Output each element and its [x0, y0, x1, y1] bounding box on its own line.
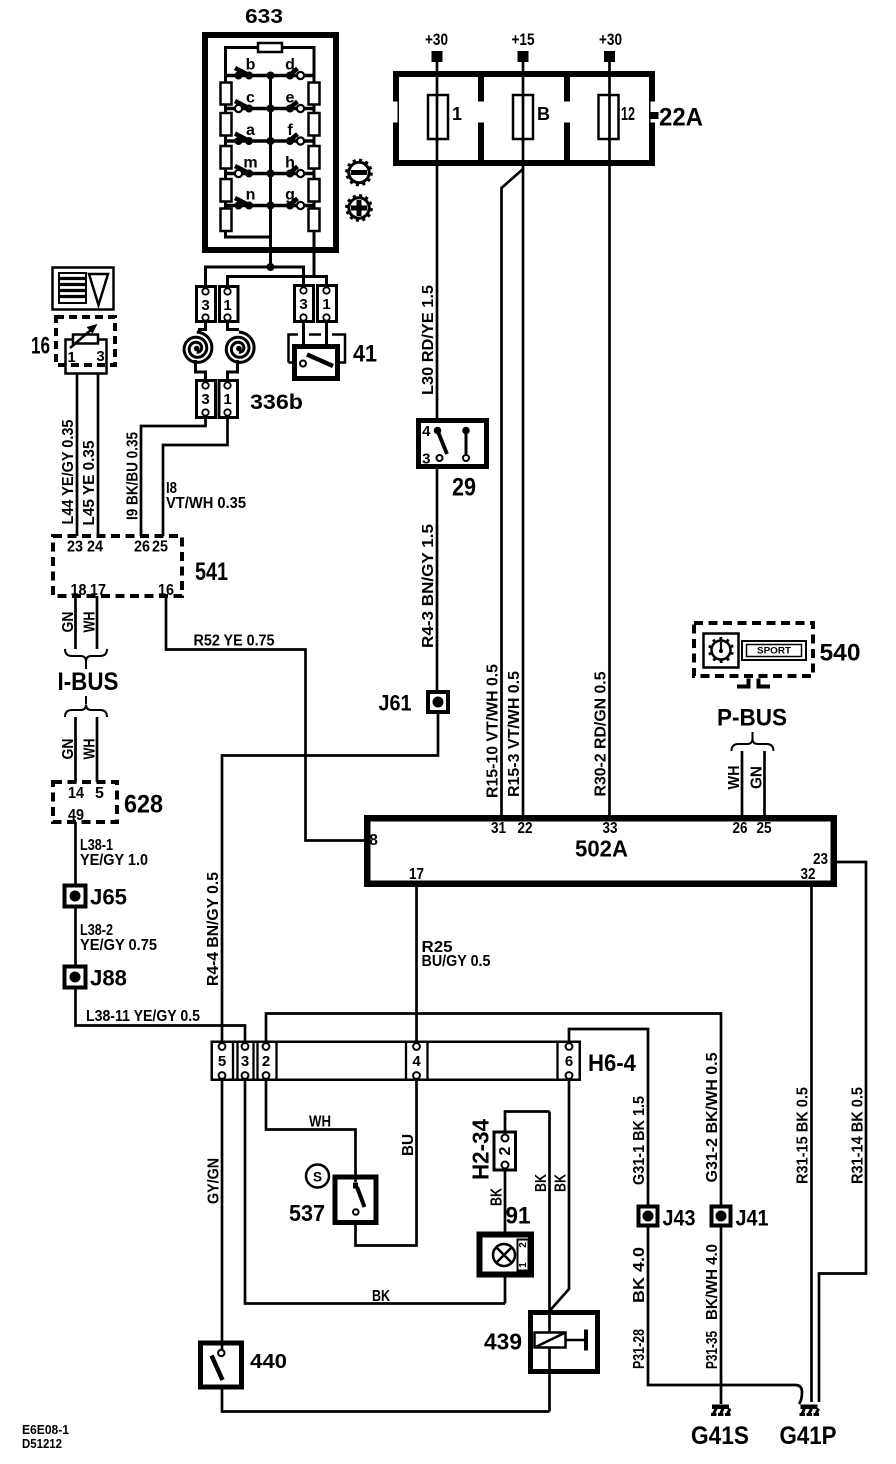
label I9 BK/BU 0.35: [125, 432, 142, 520]
svg-text:R52 YE 0.75: R52 YE 0.75: [194, 633, 275, 650]
pin 1 label 16: [67, 349, 75, 366]
svg-text:SPORT: SPORT: [757, 646, 792, 656]
label g: [285, 187, 295, 204]
label G41P: [780, 1422, 837, 1450]
switch 41 outer housing: [289, 335, 346, 363]
wire R4-4 BN/GY 0.5 (J61 to H6-4 pin 5): [222, 712, 438, 1041]
lamp 91 box: [480, 1235, 532, 1275]
wire left rail 633: [224, 46, 227, 239]
label b: [246, 57, 256, 74]
svg-text:D51212: D51212: [22, 1436, 62, 1451]
pin 18 label 541: [71, 582, 87, 599]
switch 440 box: [201, 1343, 242, 1387]
switch 540 knob icon: [704, 634, 739, 668]
switch 540 SPORT button: [742, 641, 806, 660]
wire R31-15 BK 0.5 (502A-32 to G41P): [810, 884, 813, 1402]
svg-text:VT/WH 0.35: VT/WH 0.35: [166, 495, 246, 512]
wire G31-2 BK/WH 0.5 (H6-4 pin 2 to J41): [266, 1014, 721, 1207]
switch 537 contact: [353, 1183, 365, 1215]
wire lamp 91 to BK rail: [504, 1274, 507, 1304]
switch 537 box: [335, 1177, 376, 1223]
svg-text:BK/WH 4.0: BK/WH 4.0: [704, 1244, 721, 1320]
switch 41 contact: [300, 355, 333, 367]
resistor right 5 633: [309, 209, 320, 232]
valve 439 box: [531, 1313, 598, 1372]
svg-text:22: 22: [518, 820, 533, 837]
icon dim (minus) control: [345, 159, 372, 186]
label GN lower: [60, 739, 77, 760]
wire L44 YE/GY 0.35 (16-1 to 541-23): [76, 374, 79, 536]
pin 25 label 502A: [757, 820, 772, 837]
label P31-35: [704, 1331, 721, 1369]
pin 2 label H2-34: [497, 1146, 514, 1155]
connector 3 lower (336b): [197, 381, 216, 418]
svg-text:633: 633: [245, 6, 283, 28]
wire WH (P-BUS to 502A-26): [741, 751, 744, 816]
control module 541 housing (dashed): [53, 536, 182, 596]
pin 8 label 502A: [369, 832, 378, 849]
label G31-1 BK 1.5: [631, 1096, 648, 1185]
P-BUS tick: [752, 732, 754, 741]
label L38-2: [80, 922, 113, 939]
connector H2-34: [494, 1132, 516, 1170]
pin 26 label 502A: [733, 820, 748, 837]
switch contact a 633: [235, 134, 254, 146]
wire pad to fusebox B: [522, 62, 525, 95]
switch unit 633 housing: [205, 35, 336, 250]
wire L38-11 YE/GY 0.5 (J88 to H6-4 pin 3): [76, 988, 246, 1042]
wire row b-d 633: [226, 74, 315, 78]
junction J65: [65, 886, 86, 907]
label h: [285, 155, 295, 172]
svg-text:E6E08-1: E6E08-1: [22, 1422, 69, 1437]
junction node row c 633: [267, 105, 275, 113]
resistor right 2 633: [309, 113, 320, 136]
wire into left coil: [198, 320, 206, 330]
connector 3 upper-right: [295, 286, 314, 322]
power pad +15: [518, 51, 529, 62]
label 91: [506, 1203, 531, 1230]
wire P31-35 BK/WH 4.0 (J41 to G41S): [720, 1226, 723, 1404]
svg-text:12: 12: [621, 104, 635, 124]
pin 23 label 502A: [813, 851, 828, 868]
svg-text:3: 3: [422, 451, 430, 468]
wire BK through valve 439: [548, 1112, 551, 1412]
svg-text:d: d: [285, 57, 295, 74]
svg-text:H2-34: H2-34: [468, 1119, 494, 1180]
wire connector to switch 41 right: [325, 320, 328, 346]
pin 1 label 336b: [223, 391, 231, 408]
wire BK (H6-4 pin 3 to lamp 91): [245, 1080, 505, 1304]
svg-text:32: 32: [801, 866, 816, 883]
label 502A: [575, 836, 628, 862]
svg-text:439: 439: [484, 1329, 522, 1355]
svg-text:31: 31: [491, 820, 506, 837]
label 22A: [659, 104, 703, 132]
svg-text:537: 537: [289, 1200, 325, 1226]
label WH lower: [82, 739, 99, 760]
svg-text:18: 18: [71, 582, 87, 599]
svg-text:23: 23: [67, 539, 83, 556]
svg-text:P31-28: P31-28: [631, 1329, 648, 1369]
pin 4 H6-4: [412, 1043, 421, 1079]
svg-text:5: 5: [218, 1053, 226, 1070]
svg-text:L30 RD/YE 1.5: L30 RD/YE 1.5: [420, 285, 437, 395]
pin 17 label 502A: [409, 866, 424, 883]
pin 22 label 502A: [518, 820, 533, 837]
svg-text:336b: 336b: [250, 391, 303, 414]
label 628: [124, 791, 163, 819]
wire H6-4 pin 6 to valve 439: [550, 1080, 570, 1311]
label R30-2 RD/GN 0.5: [593, 671, 610, 796]
switch contact m 633: [235, 166, 253, 178]
svg-text:49: 49: [68, 807, 84, 824]
svg-text:6: 6: [565, 1053, 573, 1070]
label L38-1: [80, 837, 113, 854]
svg-text:440: 440: [250, 1351, 287, 1373]
svg-text:4: 4: [422, 423, 431, 440]
label e: [286, 90, 295, 107]
I-BUS brace upper: [65, 649, 107, 662]
svg-text:1: 1: [67, 349, 75, 366]
label L44 YE/GY 0.35: [60, 419, 77, 524]
valve 439 element: [535, 1330, 587, 1351]
pin 3 label 336b: [201, 391, 209, 408]
switch contact h 633: [286, 167, 304, 178]
rheostat 16 housing (dashed): [56, 317, 115, 365]
svg-text:14: 14: [68, 785, 84, 802]
wire row n-g 633: [226, 204, 315, 208]
wire connector to switch 41 left: [302, 320, 305, 346]
label R31-14 BK 0.5: [850, 1087, 867, 1184]
wire 633 center to connectors: [269, 250, 272, 267]
wire P31-28 BK 4.0 (J43 to G41P): [648, 1226, 802, 1404]
svg-text:WH: WH: [726, 766, 743, 790]
wire GN (I-BUS to 628-14): [74, 717, 77, 782]
svg-text:B: B: [537, 104, 550, 124]
switch 540 foot left: [737, 679, 749, 687]
svg-text:3: 3: [201, 391, 209, 408]
svg-text:BK: BK: [533, 1174, 550, 1192]
svg-text:3: 3: [299, 296, 307, 313]
rheostat 16 inner box: [66, 340, 107, 374]
svg-text:YE/GY 1.0: YE/GY 1.0: [80, 852, 148, 869]
svg-text:1: 1: [452, 104, 462, 124]
pin 49 label 628: [68, 807, 84, 824]
svg-text:1: 1: [223, 391, 231, 408]
svg-text:f: f: [287, 122, 293, 139]
svg-text:J88: J88: [90, 966, 127, 991]
wire R31-14 BK 0.5 (502A-23 to G41P): [819, 862, 866, 1402]
switch contact b 633: [235, 68, 254, 80]
junction J41: [712, 1207, 731, 1226]
svg-text:J61: J61: [379, 691, 412, 716]
svg-text:G31-1 BK 1.5: G31-1 BK 1.5: [631, 1096, 648, 1185]
wire WH (541-17 to I-BUS): [96, 596, 99, 649]
label fuse 1: [452, 104, 462, 124]
label 41: [353, 341, 377, 368]
svg-text:P31-35: P31-35: [704, 1331, 721, 1369]
label R52 YE 0.75: [194, 633, 275, 650]
label fuse 12: [621, 104, 635, 124]
wire L30 RD/YE 1.5 (fuse 1 to relay 29): [436, 139, 439, 418]
svg-text:3: 3: [96, 348, 104, 365]
label fuse B: [537, 104, 550, 124]
junction node row a 633: [267, 137, 275, 145]
connector 1 upper-right: [318, 286, 337, 322]
pin 4 label relay 29: [422, 423, 431, 440]
coil spring left: [184, 332, 212, 362]
svg-text:a: a: [246, 122, 255, 139]
label R15-3 VT/WH 0.5: [506, 671, 523, 797]
label R31-15 BK 0.5: [795, 1087, 812, 1184]
svg-text:L38-11 YE/GY 0.5: L38-11 YE/GY 0.5: [86, 1008, 200, 1025]
label BU/GY 0.5: [422, 953, 491, 970]
wire right rail 633: [313, 46, 316, 250]
resistor right 1 633: [309, 83, 320, 105]
label WH P-BUS: [726, 766, 743, 790]
svg-text:BK: BK: [553, 1174, 570, 1192]
svg-text:J43: J43: [663, 1206, 696, 1231]
svg-text:24: 24: [87, 539, 103, 556]
svg-text:26: 26: [134, 539, 150, 556]
svg-text:R31-14 BK 0.5: R31-14 BK 0.5: [850, 1087, 867, 1184]
label 336b: [250, 391, 303, 414]
label 541: [195, 558, 228, 586]
wire R15-10 VT/WH 0.5 (branch to 502A pin 31): [502, 169, 524, 816]
relay 29 contact left: [434, 427, 447, 461]
pin 3 H6-4: [241, 1043, 249, 1079]
svg-text:2: 2: [518, 1242, 529, 1248]
svg-text:GY/GN: GY/GN: [206, 1158, 223, 1204]
label d: [285, 57, 295, 74]
switch contact e 633: [286, 102, 304, 113]
label R25: [422, 939, 453, 956]
pin 3 label upper-right connector: [299, 296, 307, 313]
pin 31 label 502A: [491, 820, 506, 837]
svg-text:26: 26: [733, 820, 748, 837]
svg-text:g: g: [285, 187, 295, 204]
resistor left 5 633: [221, 209, 232, 232]
svg-text:e: e: [286, 90, 295, 107]
svg-text:c: c: [246, 90, 255, 107]
fuse 1: [428, 95, 448, 139]
pin 26 label 541: [134, 539, 150, 556]
label 633: [245, 6, 283, 28]
svg-text:1: 1: [223, 297, 231, 314]
svg-text:R15-10 VT/WH 0.5: R15-10 VT/WH 0.5: [485, 664, 502, 798]
I-BUS brace lower: [65, 705, 107, 718]
svg-text:91: 91: [506, 1203, 531, 1230]
svg-text:J41: J41: [736, 1206, 769, 1231]
svg-text:b: b: [246, 57, 256, 74]
power pad +30 right: [604, 51, 615, 62]
wire GN (541-18 to I-BUS): [74, 596, 77, 649]
fuse B: [513, 95, 533, 139]
svg-text:41: 41: [353, 341, 377, 368]
wire fuse B internal: [522, 95, 525, 139]
connector 1 upper-left: [220, 287, 239, 322]
svg-text:29: 29: [452, 474, 476, 502]
svg-text:P-BUS: P-BUS: [717, 705, 787, 732]
svg-text:5: 5: [95, 785, 104, 802]
svg-text:h: h: [285, 155, 295, 172]
icon S circle 537: [306, 1165, 329, 1188]
wire top rail 633: [226, 46, 315, 49]
svg-text:I9 BK/BU 0.35: I9 BK/BU 0.35: [125, 432, 142, 520]
svg-text:502A: 502A: [575, 836, 628, 862]
svg-text:1: 1: [518, 1262, 529, 1268]
label R4-4 BN/GY 0.5: [205, 872, 222, 986]
wire fuse 12 internal: [608, 95, 611, 139]
wire connector bus lower: [228, 277, 327, 286]
label R15-10 VT/WH 0.5: [485, 664, 502, 798]
pin 1 label upper-left connector: [223, 297, 231, 314]
wire R15-3 VT/WH 0.5 (fuse B to 502A pin 22): [522, 139, 525, 816]
label 439: [484, 1329, 522, 1355]
svg-text:2: 2: [497, 1146, 514, 1155]
svg-text:541: 541: [195, 558, 228, 586]
switch contact c 633: [235, 101, 253, 113]
label BK 4.0: [631, 1247, 648, 1303]
label VT/WH 0.35: [166, 495, 246, 512]
fuse box 22A housing: [390, 74, 659, 163]
svg-text:+30: +30: [425, 30, 448, 49]
svg-text:1: 1: [322, 296, 330, 313]
pin 3 label relay 29: [422, 451, 430, 468]
svg-text:4: 4: [412, 1053, 421, 1070]
switch 440 contact: [212, 1350, 225, 1380]
wire row c-e 633: [226, 107, 315, 111]
label 16: [31, 333, 50, 360]
icon instrument lighting: [53, 268, 114, 310]
module 502A housing: [367, 818, 834, 884]
pin 32 label 502A: [801, 866, 816, 883]
label a: [246, 122, 255, 139]
svg-text:GN: GN: [60, 612, 77, 633]
pin 23 label 541: [67, 539, 83, 556]
switch contact g 633: [286, 199, 304, 210]
pin 2 H6-4: [262, 1043, 270, 1079]
connector 1 lower (336b): [219, 381, 238, 418]
label L30 RD/YE 1.5: [420, 285, 437, 395]
label 540: [820, 640, 861, 667]
wire GY/GN (H6-4 pin 5 to switch 440): [221, 1080, 224, 1349]
wire WH (I-BUS to 628-5): [96, 717, 99, 782]
connector 3 upper-left: [197, 287, 216, 322]
svg-text:25: 25: [152, 539, 168, 556]
power feed +30 label (fuse 12): [599, 30, 622, 49]
svg-text:J65: J65: [90, 885, 127, 910]
wire L38-1 YE/GY 1.0 (628-49 to J65): [74, 822, 77, 884]
svg-text:R4-3 BN/GY 1.5: R4-3 BN/GY 1.5: [420, 524, 437, 648]
module 628 housing (dashed): [53, 782, 117, 822]
wire 440 to 439 (bottom rail): [222, 1387, 550, 1412]
label P31-28: [631, 1329, 648, 1369]
label BK H2-34: [489, 1188, 506, 1206]
resistor right 4 633: [309, 179, 320, 202]
wire L38-2 YE/GY 0.75 (J65 to J88): [74, 907, 77, 966]
ground G41S: [711, 1405, 731, 1417]
wire bottom join 633: [224, 236, 271, 239]
junction node row m 633: [267, 170, 275, 178]
wire G31-1 BK 1.5 (H6-4 pin 6 to J43): [569, 1029, 648, 1206]
label BK/WH 4.0: [704, 1244, 721, 1320]
I-BUS tick upper: [85, 661, 87, 669]
resistor left 1 633: [221, 83, 232, 105]
label J65: [90, 885, 127, 910]
wire WH (H6-4 pin 2 to switch 537): [266, 1080, 356, 1182]
junction node row b 633: [267, 72, 275, 80]
label L45 YE 0.35: [81, 440, 98, 525]
icon brighten (plus) control: [345, 194, 372, 221]
svg-text:628: 628: [124, 791, 163, 819]
svg-text:33: 33: [603, 820, 618, 837]
svg-text:G41S: G41S: [691, 1422, 749, 1450]
label 29: [452, 474, 476, 502]
P-BUS brace: [732, 739, 774, 752]
label J88: [90, 966, 127, 991]
switch 41 box: [295, 347, 338, 379]
pin 14 label 628: [68, 785, 84, 802]
label GN P-BUS: [749, 766, 766, 789]
label J41: [736, 1206, 769, 1231]
label G41S: [691, 1422, 749, 1450]
junction J88: [65, 967, 86, 988]
label f: [287, 122, 293, 139]
label WH upper: [82, 612, 99, 633]
wire connector bus upper: [206, 267, 304, 285]
svg-text:GN: GN: [60, 739, 77, 760]
svg-text:I-BUS: I-BUS: [58, 668, 119, 696]
svg-text:WH: WH: [309, 1114, 331, 1131]
svg-text:G31-2 BK/WH 0.5: G31-2 BK/WH 0.5: [704, 1052, 721, 1182]
wire I9 BK/BU 0.35 (336b-3 to 541-26): [141, 416, 206, 536]
pin 25 label 541: [152, 539, 168, 556]
fuse 12: [599, 95, 619, 139]
label H2-34: [468, 1119, 494, 1180]
label I-BUS: [58, 668, 119, 696]
lamp 91 bulb: [493, 1244, 515, 1266]
switch 540 housing (dashed): [694, 623, 813, 676]
svg-text:17: 17: [409, 866, 424, 883]
rheostat element 16: [70, 324, 98, 348]
label YE/GY 0.75: [80, 937, 157, 954]
svg-text:n: n: [246, 187, 256, 204]
ground G41P: [800, 1405, 820, 1417]
label 440: [250, 1351, 287, 1373]
pin 16 label 541: [158, 582, 174, 599]
svg-text:+15: +15: [512, 30, 535, 49]
label G31-2 BK/WH 0.5: [704, 1052, 721, 1182]
wire L45 YE 0.35 (16-3 to 541-24): [97, 374, 100, 536]
svg-text:m: m: [243, 155, 257, 172]
svg-text:R15-3 VT/WH 0.5: R15-3 VT/WH 0.5: [506, 671, 523, 797]
power feed +15 label (fuse B): [512, 30, 535, 49]
label GY/GN: [206, 1158, 223, 1204]
label BK left: [533, 1174, 550, 1192]
drawing date D51212: [22, 1436, 62, 1451]
svg-text:S: S: [313, 1170, 322, 1185]
pin 3 label upper-left connector: [201, 297, 209, 314]
svg-text:2: 2: [262, 1053, 270, 1070]
svg-text:GN: GN: [749, 766, 766, 789]
label m: [243, 155, 257, 172]
wire out of left coil: [196, 360, 206, 382]
pin 3 label 16: [96, 348, 104, 365]
svg-text:BU: BU: [400, 1134, 417, 1156]
switch contact d 633: [286, 69, 304, 80]
